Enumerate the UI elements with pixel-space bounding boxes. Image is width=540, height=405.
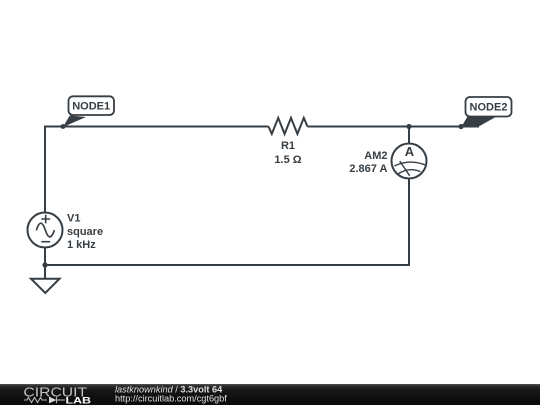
junction dot ground node bbox=[42, 262, 47, 267]
node NODE1 bbox=[63, 96, 114, 127]
svg-text:1.5 Ω: 1.5 Ω bbox=[274, 154, 301, 166]
wire top horizontal from left corner to resistor R1 left lead bbox=[45, 126, 269, 128]
svg-text:square: square bbox=[67, 226, 103, 238]
svg-text:http://circuitlab.com/cgt6gbf: http://circuitlab.com/cgt6gbf bbox=[115, 393, 227, 403]
ammeter AM2 bbox=[392, 144, 427, 179]
junction dot node A (NODE1 anchor) bbox=[61, 124, 66, 129]
footer bar bbox=[0, 384, 540, 405]
svg-text:R1: R1 bbox=[281, 140, 295, 152]
svg-text:NODE2: NODE2 bbox=[470, 102, 508, 114]
wire bottom horizontal from ground junction to ammeter branch bbox=[45, 264, 409, 266]
wire left vertical from top corner down to V1 top terminal bbox=[44, 126, 46, 213]
svg-text:2.867 A: 2.867 A bbox=[349, 163, 387, 175]
svg-text:LAB: LAB bbox=[66, 395, 92, 405]
wire top horizontal from resistor R1 right lead to NODE2 junction bbox=[308, 126, 462, 128]
svg-text:V1: V1 bbox=[67, 213, 80, 225]
wire stub right of NODE2 anchor bbox=[461, 126, 479, 128]
junction dot node B (NODE2 anchor) bbox=[458, 124, 463, 129]
wire right vertical from bottom corner up to AM2 bottom terminal bbox=[408, 179, 410, 267]
ground bbox=[31, 265, 60, 293]
voltage source V1 bbox=[28, 213, 63, 248]
node NODE2 bbox=[461, 97, 512, 127]
svg-text:A: A bbox=[405, 144, 415, 159]
svg-text:NODE1: NODE1 bbox=[72, 101, 110, 113]
resistor R1 bbox=[269, 118, 308, 134]
logo resistor-diode squiggle bbox=[24, 397, 65, 403]
svg-text:1 kHz: 1 kHz bbox=[67, 239, 96, 251]
svg-text:AM2: AM2 bbox=[364, 150, 387, 162]
wire from V1 bottom terminal to ground junction bbox=[44, 248, 46, 266]
wire from AM2 top terminal up to top junction bbox=[408, 126, 410, 144]
junction dot ammeter branch bbox=[406, 124, 411, 129]
